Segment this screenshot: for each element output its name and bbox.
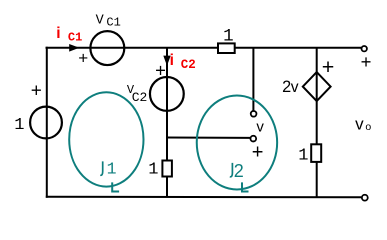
svg-text:V: V	[96, 13, 105, 28]
node v upper terminal	[251, 111, 257, 117]
source VC1 circle	[90, 31, 124, 65]
svg-text:v: v	[291, 79, 299, 96]
wire center branch lower	[166, 177, 168, 198]
wire center branch upper through VC2	[166, 48, 168, 161]
wire top-left horizontal	[46, 47, 219, 49]
svg-text:1: 1	[148, 160, 158, 179]
node v lower terminal	[250, 136, 256, 142]
wire middle horizontal to node v	[166, 137, 250, 139]
mesh loop J1	[69, 92, 143, 186]
svg-text:1: 1	[298, 146, 308, 165]
resistor R top	[218, 43, 235, 53]
label J1	[100, 161, 102, 175]
output terminal top-right	[362, 46, 367, 51]
wire top-right horizontal	[235, 47, 361, 49]
resistor R middle	[162, 161, 172, 177]
mesh loop J2	[197, 96, 277, 190]
wire inside VC2	[166, 77, 168, 111]
svg-text:2: 2	[234, 161, 244, 181]
wire right branch upper through diamond	[316, 48, 318, 145]
wire left branch vertical	[46, 47, 48, 198]
svg-text:v: v	[355, 115, 364, 134]
svg-text:+: +	[155, 59, 166, 80]
svg-text:+: +	[78, 49, 88, 68]
svg-text:+: +	[322, 55, 335, 79]
svg-text:1: 1	[223, 26, 234, 46]
svg-text:C2: C2	[132, 90, 148, 105]
svg-text:+: +	[361, 51, 372, 72]
svg-text:C2: C2	[181, 58, 196, 72]
resistor R right	[311, 144, 321, 162]
current arrow iC1	[69, 44, 79, 52]
svg-text:+: +	[252, 142, 264, 164]
mesh arrow J1	[112, 182, 119, 191]
current arrow iC2	[163, 56, 170, 66]
wire inside VC1	[91, 47, 124, 49]
output terminal bottom-right	[362, 195, 368, 201]
mesh arrow J2	[242, 182, 249, 191]
svg-text:+: +	[31, 81, 42, 102]
dependent source diamond	[303, 72, 331, 101]
wire bottom horizontal	[46, 196, 362, 198]
svg-text:i: i	[56, 25, 60, 42]
svg-text:v: v	[256, 118, 264, 135]
svg-text:1: 1	[14, 116, 24, 135]
wire right branch lower	[316, 162, 318, 197]
source VC2 circle	[150, 77, 184, 111]
wire inside left source	[46, 106, 48, 139]
source 1V left circle	[30, 107, 62, 139]
wire node v upper stub	[252, 48, 254, 111]
svg-text:o: o	[365, 121, 371, 133]
svg-text:2: 2	[282, 78, 291, 96]
label J2	[230, 163, 233, 177]
svg-text:i: i	[170, 52, 174, 69]
svg-text:1: 1	[107, 159, 117, 178]
svg-text:C1: C1	[106, 15, 120, 29]
svg-text:C1: C1	[68, 31, 82, 45]
